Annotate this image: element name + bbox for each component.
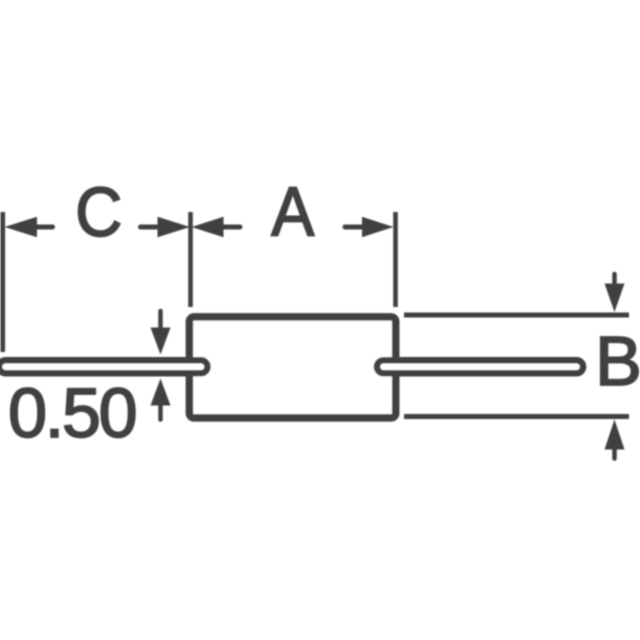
extension line middle (between C and A) (188, 212, 193, 307)
dimension C left arrowhead (5, 217, 38, 237)
dimension C left tail (36, 225, 53, 230)
left lead (0, 360, 208, 373)
dimension A left tail (223, 225, 241, 230)
dimension B bottom extension line (404, 414, 629, 419)
svg-text:0.50: 0.50 (8, 374, 135, 452)
extension line left (dimension C origin) (0, 212, 5, 352)
dimension B top arrow stem (612, 274, 617, 286)
svg-text:C: C (75, 173, 122, 251)
dimension A right arrowhead (362, 217, 394, 237)
lead thickness lower arrowhead (151, 379, 171, 406)
dimension B bottom arrowhead (605, 420, 625, 450)
svg-text:A: A (271, 173, 314, 251)
dimension C right tail (141, 225, 158, 230)
dimension C right arrowhead (158, 217, 191, 237)
dimension B top arrowhead (605, 284, 625, 313)
dimension B top extension line (404, 313, 629, 318)
dimension A left arrowhead (192, 217, 224, 237)
dimension A right tail (345, 225, 362, 230)
extension line right (dimension A end) (393, 212, 398, 307)
lead thickness upper arrow stem (158, 311, 163, 330)
svg-text:B: B (595, 322, 640, 400)
right lead (377, 360, 583, 373)
lead thickness upper arrowhead (151, 328, 171, 355)
dimension B bottom arrow stem (612, 448, 617, 459)
lead thickness lower arrow stem (158, 404, 163, 420)
package body outline (189, 317, 395, 418)
